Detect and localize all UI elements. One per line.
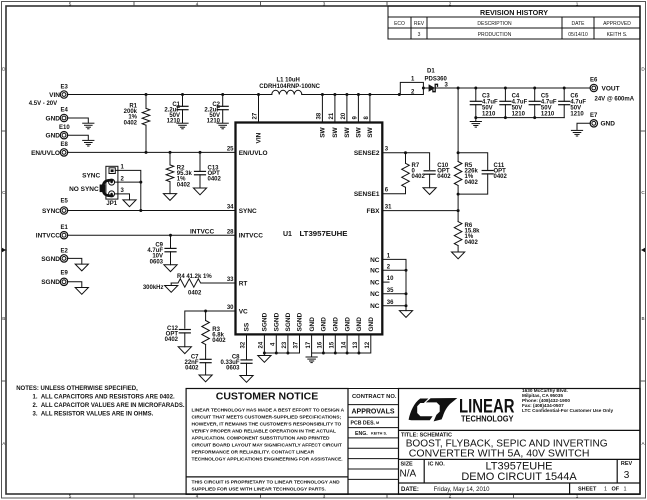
svg-text:0402: 0402 (177, 182, 191, 188)
svg-text:PCB DES.: PCB DES. (351, 421, 376, 427)
svg-text:36: 36 (387, 300, 394, 306)
wire SS pin to C8 (246, 334, 248, 360)
IC U1 LT3957EUHE body (236, 123, 383, 335)
svg-text:TECHNOLOGY APPLICATIONS ENGINE: TECHNOLOGY APPLICATIONS ENGINEERING FOR … (192, 457, 344, 463)
svg-text:NC: NC (370, 280, 380, 287)
svg-text:APPROVED: APPROVED (603, 21, 631, 27)
svg-text:20: 20 (341, 112, 347, 119)
capacitor C5 (534, 88, 536, 101)
terminal E5 SYNC (60, 207, 67, 214)
svg-text:KEITH S.: KEITH S. (607, 32, 628, 38)
revision history table (388, 6, 640, 39)
svg-text:D1: D1 (427, 69, 435, 75)
svg-text:GND: GND (46, 133, 61, 140)
svg-text:E2: E2 (61, 248, 69, 254)
svg-text:D: D (641, 67, 645, 72)
resistor R4 (171, 279, 235, 287)
terminal E10 GND (60, 132, 67, 139)
wire EN/UVLO net (67, 151, 235, 153)
svg-text:NO SYNC: NO SYNC (69, 186, 99, 193)
svg-text:SYNC: SYNC (239, 208, 257, 215)
svg-text:300kHz: 300kHz (143, 285, 164, 291)
svg-text:1: 1 (387, 254, 391, 260)
capacitor C11 (458, 153, 488, 194)
svg-text:10: 10 (387, 276, 394, 282)
ground C9 (164, 265, 177, 272)
svg-text:3. ALL RESISTOR VALUES ARE IN: 3. ALL RESISTOR VALUES ARE IN OHMS. (33, 411, 154, 417)
svg-text:1210: 1210 (570, 111, 584, 117)
zone mid arrows left/right (2, 248, 646, 253)
svg-text:0402: 0402 (465, 180, 479, 186)
svg-text:E4: E4 (61, 108, 69, 114)
resistor R1 (145, 95, 147, 109)
svg-text:E1: E1 (61, 225, 69, 231)
svg-text:E6: E6 (590, 78, 598, 84)
svg-text:OF: OF (612, 487, 620, 493)
svg-text:VOUT: VOUT (602, 85, 620, 92)
ground C8 (240, 376, 253, 383)
svg-text:16: 16 (318, 341, 324, 348)
svg-text:VIN: VIN (256, 132, 263, 143)
approvals column (348, 389, 399, 495)
ground R6 (452, 252, 465, 259)
svg-text:1210: 1210 (541, 111, 555, 117)
capacitor C4 (504, 88, 506, 101)
ground GND rail (306, 357, 317, 363)
title block (399, 389, 641, 495)
svg-text:31: 31 (385, 205, 392, 211)
svg-text:SIZE: SIZE (401, 461, 414, 467)
svg-text:SGND: SGND (297, 312, 304, 331)
svg-text:EN/UVLO: EN/UVLO (239, 150, 268, 157)
svg-text:DATE: DATE (572, 21, 586, 27)
svg-text:23: 23 (282, 341, 288, 348)
capacitor C1 (182, 95, 184, 107)
svg-text:GND: GND (321, 317, 328, 332)
capacitor C6 (563, 88, 565, 101)
wires NC pins (382, 259, 406, 310)
svg-text:NC: NC (370, 257, 380, 264)
svg-text:0402: 0402 (208, 177, 222, 183)
resistor R2 (169, 152, 171, 165)
svg-text:CONVERTER WITH 5A, 40V SWITCH: CONVERTER WITH 5A, 40V SWITCH (409, 448, 590, 460)
wire SENSE1 (382, 187, 405, 194)
terminal E7 GND (590, 120, 597, 127)
svg-text:5: 5 (69, 494, 72, 499)
pin names inside top edge (256, 126, 374, 143)
wire FBX (382, 210, 458, 212)
jumper shunt (103, 180, 112, 195)
wire E7 ground (577, 123, 590, 130)
customer notice block (186, 389, 348, 495)
ground C10 (423, 188, 436, 195)
svg-text:32: 32 (241, 341, 247, 348)
wire VIN pin drop (258, 95, 260, 123)
jumper JP1 (106, 166, 118, 199)
wire E9 ground (67, 282, 81, 288)
diode D1 PDS360 (423, 87, 428, 89)
svg-text:0402: 0402 (437, 174, 451, 180)
svg-text:SGND: SGND (41, 256, 60, 263)
svg-text:N/A: N/A (400, 469, 417, 480)
wire JP1 pin2 (115, 182, 141, 210)
svg-text:E9: E9 (61, 271, 69, 277)
capacitor C3 (475, 88, 477, 101)
svg-text:VC: VC (239, 309, 248, 316)
svg-text:R4 41.2k 1%: R4 41.2k 1% (177, 274, 212, 280)
wire JP1 pin1 (115, 170, 141, 182)
svg-text:SGND: SGND (285, 312, 292, 331)
wire cap bank bottom rail (476, 117, 564, 119)
svg-text:EN/UVLO: EN/UVLO (31, 150, 60, 157)
svg-text:GND: GND (46, 115, 61, 122)
svg-text:0402: 0402 (185, 366, 199, 372)
svg-text:PDS360: PDS360 (425, 76, 448, 82)
svg-text:JP1: JP1 (106, 201, 117, 207)
svg-text:NC: NC (370, 303, 380, 310)
svg-text:17: 17 (306, 341, 312, 348)
svg-text:SUPPLIED FOR USE WITH LINEAR T: SUPPLIED FOR USE WITH LINEAR TECHNOLOGY … (192, 486, 327, 492)
terminal E2 SGND (60, 255, 67, 262)
svg-text:3: 3 (418, 32, 421, 38)
ground SGND (258, 356, 271, 363)
ground E7 (571, 130, 582, 136)
svg-text:6: 6 (385, 188, 389, 194)
svg-text:1: 1 (604, 487, 607, 493)
svg-text:GND: GND (333, 317, 340, 332)
svg-text:1. ALL CAPACITORS AND RESISTO: 1. ALL CAPACITORS AND RESISTORS ARE 0402… (33, 395, 175, 401)
wire VIN rail (67, 94, 399, 96)
svg-text:LINEAR TECHNOLOGY HAS MADE A B: LINEAR TECHNOLOGY HAS MADE A BEST EFFORT… (192, 407, 345, 413)
wire SYNC net (67, 210, 235, 212)
resistor R6 (457, 211, 459, 222)
svg-text:ECO: ECO (394, 21, 405, 27)
svg-text:C: C (641, 190, 645, 195)
wire E2 ground (67, 258, 81, 264)
ground C7 (199, 375, 212, 382)
svg-text:NC: NC (370, 268, 380, 275)
terminal E8 EN/UVLO (60, 149, 67, 156)
svg-text:28: 28 (227, 229, 234, 235)
svg-text:0402: 0402 (465, 240, 479, 246)
node dots VIN rail (145, 93, 401, 96)
ground E10 (83, 140, 94, 146)
capacitor C2 (222, 95, 224, 107)
ground C13 (193, 188, 206, 195)
svg-text:REVISION HISTORY: REVISION HISTORY (480, 10, 548, 17)
svg-text:LT3957EUHE: LT3957EUHE (300, 231, 348, 238)
svg-text:IC NO.: IC NO. (428, 461, 445, 467)
svg-text:NC: NC (370, 291, 380, 298)
svg-text:SGND: SGND (41, 279, 60, 286)
svg-text:1210: 1210 (482, 111, 496, 117)
svg-text:VIN: VIN (49, 92, 60, 99)
svg-text:SENSE1: SENSE1 (354, 191, 380, 198)
svg-text:INTVCC: INTVCC (36, 233, 61, 240)
svg-text:SHEET: SHEET (578, 487, 597, 493)
svg-text:4: 4 (271, 342, 277, 346)
svg-text:E5: E5 (61, 199, 69, 205)
svg-text:NOTES: UNLESS OTHERWISE SPECIF: NOTES: UNLESS OTHERWISE SPECIFIED, (16, 386, 138, 392)
svg-text:0402: 0402 (494, 174, 508, 180)
ground C12 (178, 347, 191, 354)
svg-text:33: 33 (227, 277, 234, 283)
svg-text:SW: SW (332, 126, 339, 137)
svg-text:34: 34 (227, 205, 234, 211)
svg-text:0402: 0402 (412, 174, 426, 180)
svg-text:5: 5 (69, 2, 72, 7)
svg-text:APPLICATION. COMPONENT SUBSTI: APPLICATION. COMPONENT SUBSTITUTION AND … (192, 436, 331, 442)
svg-text:GND: GND (344, 317, 351, 332)
svg-text:1: 1 (411, 77, 415, 83)
svg-text:3: 3 (121, 188, 125, 194)
svg-text:VERIFY PROPER AND RELIABLE OPE: VERIFY PROPER AND RELIABLE OPERATION IN … (192, 429, 337, 435)
capacitor C7 (200, 359, 211, 362)
svg-text:ENG.: ENG. (355, 431, 368, 437)
svg-text:SW: SW (344, 126, 351, 137)
svg-text:37: 37 (294, 341, 300, 348)
ground E2 (75, 264, 88, 271)
svg-text:SGND: SGND (274, 312, 281, 331)
svg-text:14: 14 (341, 341, 347, 348)
capacitor C9 (170, 235, 172, 248)
svg-text:0603: 0603 (226, 366, 240, 372)
svg-text:APPROVALS: APPROVALS (351, 409, 394, 416)
svg-text:E7: E7 (590, 113, 598, 119)
svg-text:1210: 1210 (167, 119, 181, 125)
terminal E6 VOUT (590, 84, 597, 91)
svg-text:SGND: SGND (262, 312, 269, 331)
svg-text:KEITH S.: KEITH S. (371, 432, 387, 436)
svg-text:GND: GND (601, 121, 616, 128)
inductor L1 (272, 90, 302, 94)
svg-text:SW: SW (367, 126, 374, 137)
pin number 27 / top pin labels (253, 112, 370, 119)
terminal E1 INTVCC (60, 232, 67, 239)
svg-text:E3: E3 (61, 85, 69, 91)
svg-text:PERFORMANCE OR RELIABILITY. C: PERFORMANCE OR RELIABILITY. CONTACT LINE… (192, 450, 315, 456)
svg-text:U1: U1 (283, 231, 292, 238)
ground R4 (165, 286, 178, 293)
svg-text:4: 4 (196, 2, 199, 7)
svg-text:REV: REV (621, 461, 633, 467)
svg-text:THIS CIRCUIT IS PROPRIETARY TO: THIS CIRCUIT IS PROPRIETARY TO LINEAR TE… (192, 479, 341, 485)
svg-text:3: 3 (323, 2, 326, 7)
resistor R3 (205, 311, 207, 321)
capacitor C12 (179, 330, 190, 333)
wire E10 to ground (67, 135, 88, 140)
svg-text:INTVCC: INTVCC (239, 233, 264, 240)
svg-text:CIRCUIT THAT MEETS CUSTOMER-SU: CIRCUIT THAT MEETS CUSTOMER-SUPPLIED SPE… (192, 414, 342, 420)
terminal E4 GND (60, 114, 67, 121)
D1 winding box (400, 82, 423, 94)
svg-text:DEMO CIRCUIT 1544A: DEMO CIRCUIT 1544A (461, 471, 577, 483)
svg-text:L1 10uH: L1 10uH (277, 77, 300, 83)
capacitor C10 (424, 171, 435, 174)
svg-text:4.5V - 20V: 4.5V - 20V (29, 101, 57, 107)
svg-text:1210: 1210 (207, 119, 221, 125)
ground R2 (163, 194, 176, 201)
svg-text:SS: SS (244, 322, 251, 331)
svg-text:CUSTOMER NOTICE: CUSTOMER NOTICE (216, 391, 318, 403)
svg-text:SYNC: SYNC (82, 172, 100, 179)
svg-text:GND: GND (309, 317, 316, 332)
wire VOUT to divider (457, 88, 459, 153)
svg-text:PRODUCTION: PRODUCTION (478, 32, 512, 38)
svg-text:13: 13 (353, 341, 359, 348)
svg-text:1210: 1210 (512, 111, 526, 117)
wire VC (185, 311, 236, 328)
svg-text:SW: SW (320, 126, 327, 137)
svg-text:05/14/10: 05/14/10 (568, 32, 588, 38)
svg-text:12: 12 (365, 341, 371, 348)
svg-text:1: 1 (624, 487, 627, 493)
svg-text:LTC Confidential-For Customer: LTC Confidential-For Customer Use Only (522, 408, 613, 413)
svg-text:24V @ 600mA: 24V @ 600mA (595, 96, 635, 102)
svg-text:27: 27 (253, 112, 259, 119)
wire SW drops (322, 95, 370, 123)
svg-text:E10: E10 (59, 125, 70, 131)
wire SENSE2 (382, 153, 429, 170)
wire INTVCC net (67, 234, 235, 236)
svg-text:SENSE2: SENSE2 (354, 150, 380, 157)
wire VOUT rail (435, 87, 590, 89)
svg-text:E8: E8 (61, 142, 69, 148)
svg-text:M: M (376, 421, 379, 425)
svg-text:35: 35 (387, 288, 394, 294)
svg-text:0603: 0603 (150, 259, 164, 265)
svg-text:1: 1 (121, 165, 125, 171)
svg-text:30: 30 (227, 305, 234, 311)
svg-text:8: 8 (364, 116, 370, 120)
capacitor C8 (241, 360, 252, 363)
svg-text:3: 3 (385, 147, 389, 153)
wire JP1 pin3 (115, 194, 130, 200)
svg-text:2: 2 (121, 176, 125, 182)
svg-text:A: A (641, 441, 645, 446)
svg-text:TECHNOLOGY: TECHNOLOGY (461, 414, 514, 424)
svg-text:15: 15 (330, 341, 336, 348)
svg-text:CIRCUIT BOARD LAYOUT MAY SIGNI: CIRCUIT BOARD LAYOUT MAY SIGNIFICANTLY A… (192, 443, 342, 449)
svg-text:3: 3 (624, 470, 630, 481)
svg-text:24: 24 (259, 341, 265, 348)
resistor R7 (405, 153, 407, 164)
svg-text:SW: SW (356, 126, 363, 137)
terminal E3 VIN (60, 91, 67, 98)
svg-text:REV: REV (414, 21, 425, 27)
Linear Technology logo (409, 398, 458, 421)
terminal E9 SGND (60, 278, 67, 285)
ground E4 (83, 123, 94, 129)
svg-text:CONTRACT NO.: CONTRACT NO. (352, 394, 397, 400)
ground JP1 (123, 200, 136, 207)
svg-text:0402: 0402 (165, 337, 179, 343)
svg-text:2. ALL CAPACITOR VALUES ARE I: 2. ALL CAPACITOR VALUES ARE IN MICROFARA… (33, 403, 185, 409)
svg-text:DESCRIPTION: DESCRIPTION (477, 21, 512, 27)
svg-text:SYNC: SYNC (42, 208, 60, 215)
svg-text:GND: GND (368, 317, 375, 332)
notes text (16, 386, 185, 417)
svg-text:GND: GND (356, 317, 363, 332)
svg-text:FBX: FBX (367, 208, 381, 215)
wire GND rail (312, 334, 371, 356)
svg-text:0402: 0402 (212, 338, 226, 344)
svg-text:RT: RT (239, 281, 248, 288)
svg-text:9: 9 (353, 116, 359, 120)
svg-text:B: B (2, 316, 5, 321)
svg-text:INTVCC: INTVCC (190, 228, 215, 235)
svg-text:0402: 0402 (188, 291, 202, 297)
svg-text:HOWEVER, IT REMAINS THE CUSTOM: HOWEVER, IT REMAINS THE CUSTOMER'S RESPO… (192, 421, 342, 427)
svg-text:DATE:: DATE: (401, 487, 419, 493)
svg-text:B: B (641, 316, 644, 321)
resistor R5 (457, 153, 459, 162)
ground cap bank (470, 122, 481, 128)
bottom pin numbers (241, 341, 371, 348)
ground NC (399, 311, 412, 318)
wire SGND rail (264, 334, 299, 355)
wire E4 to ground (67, 118, 88, 123)
ground E9 (75, 288, 88, 295)
svg-text:Friday, May 14, 2010: Friday, May 14, 2010 (434, 487, 491, 493)
svg-text:21: 21 (329, 112, 335, 119)
capacitor C13 (199, 152, 201, 171)
svg-text:CDRH104RNP-100NC: CDRH104RNP-100NC (259, 84, 320, 90)
svg-text:0402: 0402 (124, 120, 138, 126)
pin names inside bottom edge (244, 312, 375, 331)
svg-text:38: 38 (317, 112, 323, 119)
svg-text:2: 2 (387, 264, 391, 270)
svg-text:25: 25 (227, 147, 234, 153)
